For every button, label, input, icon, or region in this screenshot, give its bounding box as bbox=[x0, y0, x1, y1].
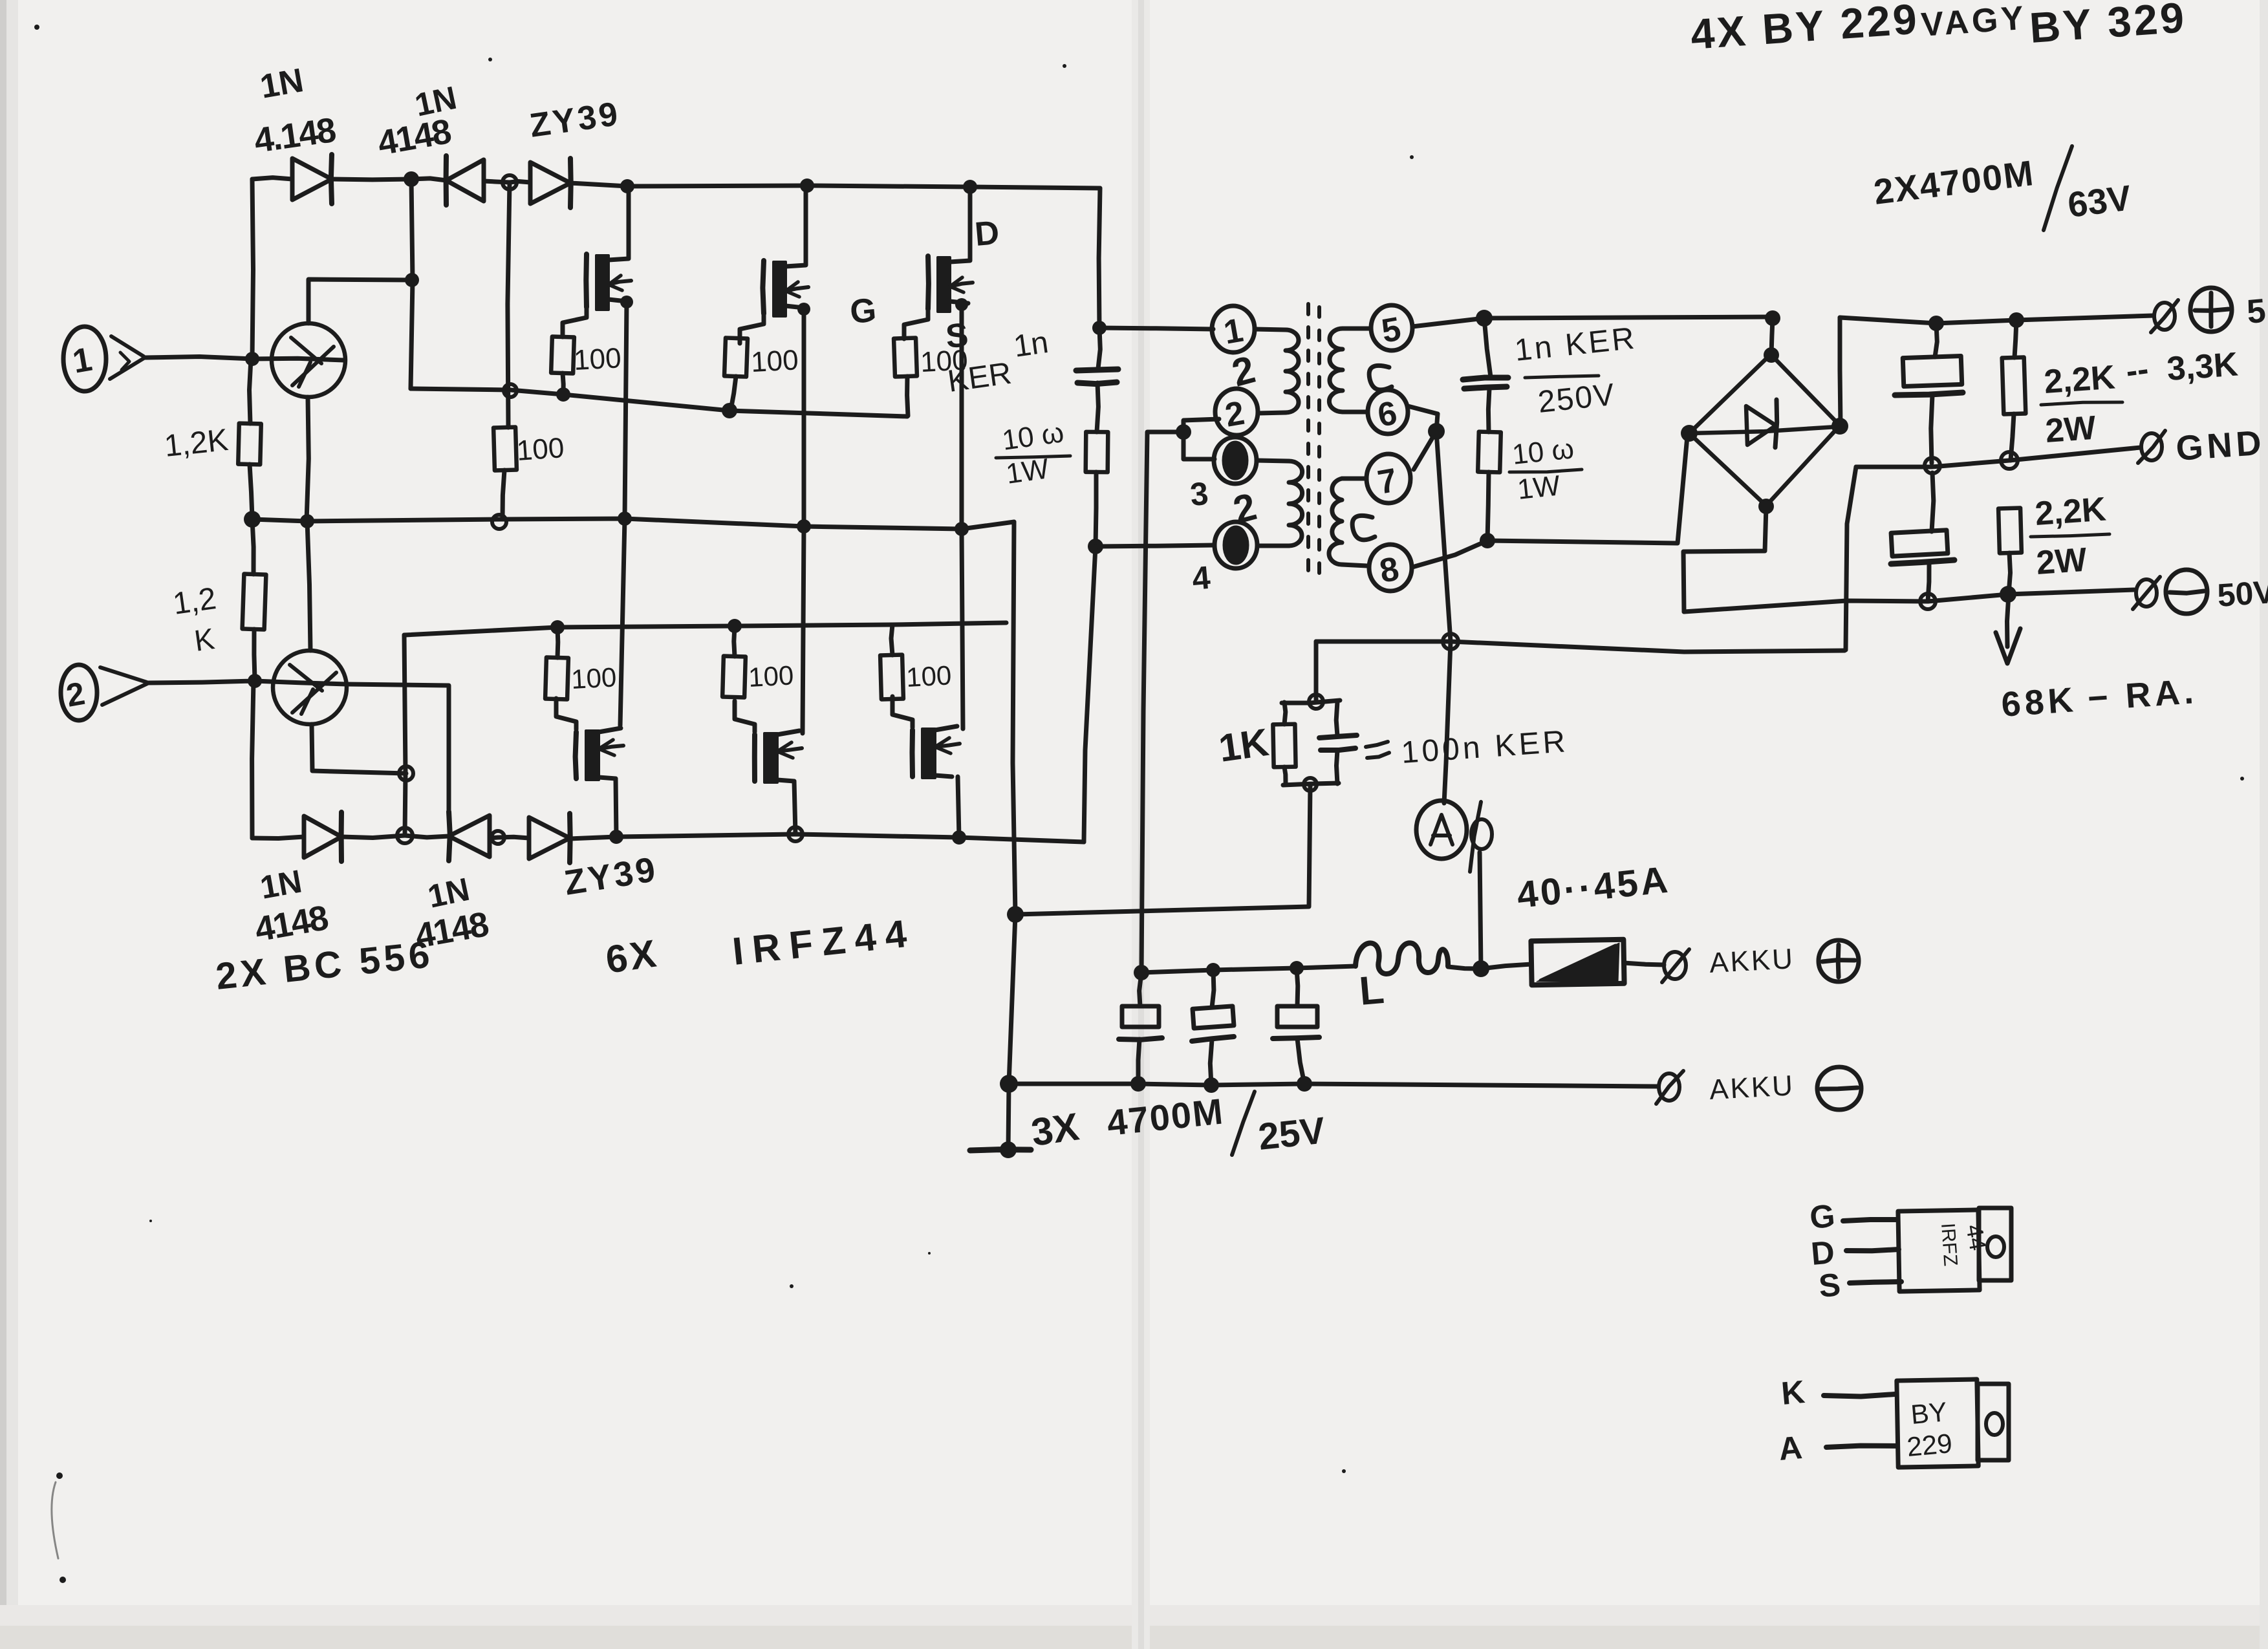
node - M2 vertical on bus B bbox=[797, 519, 811, 533]
wire - rail corner down to pin1 node bbox=[1099, 188, 1100, 328]
node - M2 drain on rail bbox=[800, 178, 814, 193]
wire - bridge bottom jog to -50V rail bbox=[1683, 506, 1766, 612]
input terminal 2 circle bbox=[61, 665, 97, 720]
node - L to fuse node bbox=[1473, 960, 1489, 977]
bridge diamond bbox=[1689, 354, 1840, 506]
primary winding 1-2 bbox=[1255, 329, 1299, 413]
wire - input 1 to node bbox=[145, 357, 252, 360]
symbol minus circle bbox=[1817, 1067, 1861, 1110]
MOSFET M4 IRFZ44 (lower left) bbox=[556, 698, 623, 780]
label ZY39 (top) bbox=[528, 95, 623, 145]
wire - L node to fuse bbox=[1481, 964, 1531, 969]
node - combo return junction bbox=[1007, 906, 1024, 923]
node - M1 drain on rail bbox=[620, 179, 634, 193]
svg-text:L: L bbox=[1357, 967, 1386, 1014]
resistor R4g 100 ohm bbox=[545, 627, 568, 699]
node - cap2 top bbox=[1206, 963, 1220, 977]
resistor R9 2.2K 2W bbox=[1998, 508, 2022, 594]
svg-text:IRFZ: IRFZ bbox=[1937, 1222, 1961, 1267]
wire - fuse to AKKU+ terminal bbox=[1624, 963, 1664, 965]
node - R7 bottom on pin8 wire bbox=[1480, 533, 1495, 548]
svg-text:A: A bbox=[1777, 1429, 1804, 1467]
node - rail/bridge stub bbox=[1765, 310, 1780, 326]
transistor Q2 BC556 circle bbox=[273, 651, 347, 724]
wire - vertical from D2 node down to R4 bbox=[508, 182, 510, 427]
label 1,2K (upper) bbox=[163, 423, 230, 464]
svg-text:10 ω: 10 ω bbox=[1511, 433, 1575, 471]
wire - bridge top stub to rail bbox=[1771, 318, 1773, 355]
secondary winding 7-8 bbox=[1329, 479, 1367, 566]
wire - tap to pin7 bbox=[1414, 431, 1436, 469]
node - Q2 path/vertical x626 junction bbox=[399, 766, 413, 781]
label 1N (D2) bbox=[375, 80, 460, 163]
resistor R5g 100 ohm bbox=[722, 626, 746, 697]
label ZY39 (bottom) bbox=[561, 850, 660, 903]
svg-text:100: 100 bbox=[750, 344, 799, 378]
node - GND crossing bbox=[1443, 634, 1458, 649]
wire - M1 source vertical to bus B and M4 drain bbox=[620, 296, 633, 726]
wire - M5 source to lower bus bbox=[794, 781, 795, 834]
svg-text:2,2K: 2,2K bbox=[2043, 358, 2117, 401]
node - cap3 top bbox=[1290, 961, 1304, 975]
node - M5 source on bus bbox=[788, 827, 803, 841]
symbol minus 50V bbox=[2166, 570, 2268, 614]
inductor L bbox=[1355, 943, 1448, 974]
node - snubber bottom / pin4 wire bbox=[1088, 539, 1103, 554]
resistor R2g 100 ohm bbox=[724, 338, 748, 410]
wire - AKKU+ rail bbox=[1141, 966, 1355, 973]
wire bbox=[484, 181, 510, 182]
node - input2/vertical junction bbox=[248, 674, 262, 688]
label 2,2K 2W (R9) bbox=[2031, 490, 2110, 582]
svg-text:100: 100 bbox=[905, 660, 952, 693]
diode D2 1N4148 reversed (top row) bbox=[446, 156, 484, 205]
node - M3 vertical on bus B bbox=[955, 522, 969, 536]
resistor R3g 100 ohm bbox=[894, 338, 917, 416]
wire - to transformer pin 4 bbox=[1096, 545, 1215, 546]
terminal AKKU- circle bbox=[1656, 1071, 1683, 1104]
svg-text:100: 100 bbox=[515, 432, 565, 467]
svg-text:GND: GND bbox=[2175, 423, 2267, 468]
label 40..45A bbox=[1515, 858, 1672, 916]
wire - pin6 to tap bbox=[1408, 406, 1438, 414]
wire - pin2 to center tap node bbox=[1183, 419, 1219, 432]
transformer pin 5 circle bbox=[1371, 305, 1412, 350]
node - D5/D6 junction bbox=[491, 831, 504, 844]
svg-text:S: S bbox=[944, 316, 970, 356]
wire - Q1 collector down bbox=[307, 397, 308, 521]
svg-text:VAGY: VAGY bbox=[1920, 0, 2028, 44]
MOSFET M2 IRFZ44 (upper middle) bbox=[740, 192, 808, 343]
diode D4 1N4148 (bottom row) bbox=[304, 812, 341, 861]
wire - vertical x636 (diode node down to bus A corner) bbox=[411, 179, 413, 389]
wire - combo bottom to ground vertical bbox=[1017, 785, 1310, 914]
BY229 package drawing bbox=[1777, 1374, 2009, 1467]
winding count 2 (lower primary) bbox=[1229, 484, 1261, 532]
svg-text:D: D bbox=[973, 214, 1000, 253]
wire - Q2 bottom path to lower vertical bbox=[312, 724, 406, 773]
label 1N (D5) bbox=[413, 871, 491, 956]
node - C6 bottom bbox=[1920, 594, 1936, 609]
wire - -50V rail bbox=[1684, 590, 2134, 612]
label 100 (R6g) bbox=[905, 660, 952, 693]
label 10e/1W (R7) bbox=[1509, 433, 1582, 506]
wire bbox=[490, 837, 498, 837]
capacitor CE3 4700u bbox=[1273, 968, 1319, 1084]
node - combo top bbox=[1309, 695, 1323, 709]
svg-text:1n: 1n bbox=[1011, 325, 1050, 364]
label 4 bbox=[1191, 559, 1212, 597]
svg-text:1,2K: 1,2K bbox=[163, 423, 230, 464]
wire - lower source bus bbox=[570, 834, 1084, 842]
wire - pin8 run bbox=[1412, 436, 1687, 567]
label GND bbox=[2175, 423, 2267, 468]
wire - top-left rail segment bbox=[252, 178, 292, 179]
label 4X BY229 VAGY BY329 bbox=[1689, 0, 2188, 58]
node - M1 vertical on bus B bbox=[618, 512, 632, 526]
node - CE3 bottom bbox=[1297, 1076, 1312, 1092]
svg-text:6X: 6X bbox=[603, 931, 661, 982]
wire - center tap to AKKU+ vertical bbox=[1141, 432, 1183, 973]
svg-text:1N: 1N bbox=[257, 863, 305, 906]
MOSFET M3 IRFZ44 (upper right) bbox=[904, 188, 973, 339]
combo top bar bbox=[1282, 700, 1340, 703]
terminal AKKU+ circle bbox=[1662, 949, 1689, 982]
svg-text:AKKU: AKKU bbox=[1709, 1070, 1795, 1106]
label S bbox=[944, 316, 970, 356]
node - 6/7 tap bbox=[1428, 423, 1445, 440]
svg-text:63V: 63V bbox=[2066, 177, 2133, 225]
wire - M2 source vertical bbox=[797, 303, 810, 733]
wire - left vertical bottom (input2 to lower diode row) bbox=[252, 681, 254, 838]
secondary sense curl (upper) bbox=[1369, 365, 1392, 390]
label 1K bbox=[1216, 720, 1271, 770]
resistor R5 10ohm 1W bbox=[1086, 432, 1108, 546]
Q1 internal strokes bbox=[291, 338, 334, 387]
svg-text:100: 100 bbox=[748, 660, 794, 693]
wire - Q1 emitter up bbox=[308, 279, 412, 323]
wire - M4 source to lower bus bbox=[616, 779, 616, 837]
svg-text:100: 100 bbox=[573, 342, 622, 376]
wire - pin3 to center tap node bbox=[1183, 432, 1215, 459]
transformer pin 2 circle bbox=[1215, 389, 1258, 435]
svg-text:1N: 1N bbox=[257, 61, 307, 106]
svg-text:4: 4 bbox=[1191, 559, 1212, 597]
label 3 bbox=[1189, 475, 1210, 513]
label 1n KER (C1) bbox=[945, 325, 1050, 399]
resistor R7 10ohm 1W bbox=[1478, 432, 1501, 541]
transformer pin 4 circle (filled) bbox=[1215, 522, 1257, 568]
svg-text:5: 5 bbox=[2245, 292, 2267, 331]
label 100 (R5g) bbox=[748, 660, 794, 693]
svg-text:2W: 2W bbox=[2044, 409, 2098, 450]
node - AKKU+ left node / cap1 top bbox=[1134, 965, 1149, 980]
diode D3 ZY39 zener (top row) bbox=[510, 158, 571, 208]
wire - bus B (source bus) bbox=[252, 519, 1014, 529]
winding count 2 (upper primary) bbox=[1227, 347, 1260, 394]
wire - Q2 top to bus B bbox=[307, 521, 310, 651]
secondary winding 5-6 bbox=[1329, 329, 1371, 412]
svg-text:3,3K: 3,3K bbox=[2166, 345, 2240, 388]
node - CE1 bottom bbox=[1130, 1076, 1146, 1092]
input terminal 1 circle bbox=[63, 327, 106, 391]
arrow to 68K bbox=[1996, 594, 2020, 663]
wire - GND run bbox=[1316, 641, 1844, 652]
ammeter circle A bbox=[1416, 801, 1467, 859]
label 100 (R3g) bbox=[920, 344, 969, 378]
wire - left vertical top (diode row to input1) bbox=[252, 179, 254, 359]
wire bbox=[332, 177, 411, 182]
wire - M3 source vertical bbox=[955, 298, 968, 729]
node - CE2 bottom bbox=[1204, 1077, 1219, 1093]
label 100 (R4) bbox=[515, 432, 565, 467]
wire - L to node bbox=[1448, 967, 1481, 969]
label AKKU (minus) bbox=[1709, 1070, 1795, 1106]
node - AKKU- rail left end bbox=[1000, 1075, 1018, 1093]
transistor Q1 BC556 circle bbox=[272, 323, 345, 397]
svg-text:229: 229 bbox=[1906, 1428, 1954, 1462]
node - R4 top on bus A bbox=[504, 384, 517, 397]
label 100 (R1g) bbox=[573, 342, 622, 376]
svg-text:3: 3 bbox=[1189, 475, 1210, 513]
label 1N (D1) bbox=[252, 61, 338, 160]
wire bbox=[252, 837, 304, 839]
wire - input 2 to node bbox=[147, 681, 255, 683]
node - combo bottom bbox=[1304, 778, 1317, 791]
node - bridge right corner bbox=[1831, 418, 1848, 435]
svg-text:1,2: 1,2 bbox=[171, 581, 218, 621]
node - D1/D2 junction bbox=[404, 171, 419, 187]
label L bbox=[1357, 967, 1386, 1014]
wire - node to transformer pin 1 bbox=[1099, 328, 1213, 329]
transformer core dashes bbox=[1308, 304, 1319, 582]
input 1 arrow bbox=[110, 336, 145, 379]
label 100 (R2g) bbox=[750, 344, 799, 378]
node - bridge bottom corner bbox=[1758, 499, 1774, 514]
capacitor CE1 4700u bbox=[1119, 973, 1162, 1084]
wire - combo top node to GND wire bbox=[1314, 641, 1319, 700]
label 2X BC 556 bbox=[214, 933, 436, 998]
node - C4 top bbox=[1476, 310, 1493, 327]
node - C5 bottom / C6 top bbox=[1925, 458, 1940, 473]
ground symbol bbox=[970, 1141, 1031, 1158]
capacitor C4 1n KER 250V bbox=[1463, 318, 1508, 432]
wire - top drain rail bbox=[570, 183, 1100, 188]
diode D6 ZY39 zener (bottom row) bbox=[498, 814, 570, 863]
svg-text:BY: BY bbox=[1910, 1396, 1949, 1430]
node - bridge left corner bbox=[1681, 425, 1698, 442]
MOSFET M5 IRFZ44 (lower middle) bbox=[735, 701, 802, 782]
label 100 (R4g) bbox=[570, 662, 617, 695]
diode D1 1N4148 (top row) bbox=[292, 155, 332, 204]
svg-text:G: G bbox=[1808, 1198, 1837, 1236]
resistor R1g 100 ohm bbox=[551, 336, 574, 394]
wire - GND left descender bbox=[1844, 467, 1856, 651]
node - cap C5 top bbox=[1928, 316, 1944, 331]
svg-text:S: S bbox=[1817, 1266, 1842, 1304]
node - emitter wire/vertical junction bbox=[405, 273, 419, 287]
bridge middle wire bbox=[1689, 427, 1837, 433]
wire - Q2 base extension down to D5 bbox=[347, 684, 449, 812]
node - input1/vertical junction bbox=[245, 352, 259, 366]
input 2 arrow bbox=[100, 667, 147, 705]
wire - vertical x626 (bus C to lower diode row) bbox=[404, 635, 405, 835]
svg-text:AKKU: AKKU bbox=[1709, 943, 1795, 979]
node - M3 drain on rail bbox=[963, 180, 977, 194]
label 2X4700M/63V bbox=[1872, 146, 2133, 230]
bridge internal diode bbox=[1746, 400, 1777, 447]
node - R5g on bus C bbox=[728, 619, 742, 633]
diode D5 1N4148 reversed (bottom row) bbox=[405, 812, 490, 861]
node - R2g bottom on bus A bbox=[722, 403, 737, 418]
capacitor C1 1n KER bbox=[1076, 328, 1118, 432]
svg-text:G: G bbox=[848, 292, 878, 331]
label AKKU (plus) bbox=[1709, 943, 1795, 979]
label 6X IRFZ44 bbox=[603, 911, 917, 982]
node - R1g bottom on bus A bbox=[556, 387, 570, 402]
node - R8 bottom R9 top bbox=[2001, 452, 2018, 469]
wire - bus B descender (ground vertical) bbox=[1008, 522, 1015, 1150]
node - Q2/Q1/busB junction bbox=[300, 514, 314, 528]
transformer pin 8 circle bbox=[1369, 544, 1412, 591]
capacitor C6 4700u/63V bbox=[1891, 473, 1954, 601]
Q2 internal strokes bbox=[290, 665, 336, 714]
resistor R6 1K bbox=[1273, 702, 1295, 784]
node - R9 bottom bbox=[2000, 586, 2016, 603]
ammeter terminal phi bbox=[1470, 802, 1492, 872]
svg-text:K: K bbox=[1780, 1374, 1806, 1412]
label G bbox=[848, 292, 878, 331]
capacitor C3 100n KER bbox=[1319, 702, 1357, 784]
label 1N (D4) bbox=[252, 863, 331, 949]
node - bridge top corner bbox=[1764, 347, 1779, 363]
wire - secondary tap to GND wire vertical bbox=[1436, 414, 1451, 641]
capacitor C5 4700u/63V bbox=[1895, 323, 1963, 463]
label 10e/1W (R5) bbox=[996, 416, 1070, 490]
label 68K - RA. bbox=[2000, 672, 2199, 724]
wire bbox=[341, 835, 405, 838]
resistor R4 100 ohm (gate bleed) bbox=[493, 427, 517, 519]
Q1 base line bbox=[252, 358, 344, 360]
terminal GND circle bbox=[2138, 431, 2165, 463]
node - pin1 branch node bbox=[1092, 321, 1107, 335]
node - M4 source on bus bbox=[609, 830, 623, 844]
node - R8 top bbox=[2009, 312, 2024, 328]
node - center tap node bbox=[1176, 424, 1191, 440]
label 2,2K--3,3K bbox=[2041, 345, 2240, 450]
capacitor CE2 4700u bbox=[1192, 970, 1234, 1085]
wire bbox=[411, 178, 446, 180]
label 1n KER 250V bbox=[1513, 321, 1639, 420]
terminal -50V circle bbox=[2133, 577, 2160, 609]
svg-text:3X: 3X bbox=[1028, 1105, 1081, 1154]
transformer pin 7 circle bbox=[1366, 454, 1410, 503]
wire - pin5 to +50V rail bbox=[1412, 317, 1772, 327]
node - D2/D3 junction bbox=[502, 175, 517, 189]
svg-text:50V: 50V bbox=[2216, 574, 2268, 614]
symbol plus 50V bbox=[2190, 288, 2267, 332]
transformer pin 6 circle bbox=[1368, 390, 1408, 435]
svg-text:1W: 1W bbox=[1516, 469, 1562, 506]
wire - snubber descender to lower bus bbox=[1084, 546, 1096, 842]
terminal +50V circle bbox=[2151, 300, 2178, 332]
wire - M6 source to lower bus bbox=[958, 777, 959, 837]
transformer pin 3 circle (filled) bbox=[1214, 437, 1257, 484]
node - R4g on bus C bbox=[550, 620, 565, 634]
combo bottom bar bbox=[1283, 783, 1339, 785]
resistor R8 2.2K 2W bbox=[2002, 320, 2026, 460]
MOSFET M6 IRFZ44 (lower right) bbox=[892, 696, 960, 778]
node - bus B left end bbox=[244, 511, 261, 528]
svg-text:1K: 1K bbox=[1216, 720, 1271, 770]
svg-text:1W: 1W bbox=[1004, 453, 1052, 490]
symbol plus circle bbox=[1819, 940, 1859, 982]
wire - AKKU- rail bbox=[1009, 1084, 1658, 1086]
secondary sense curl (lower) bbox=[1352, 515, 1375, 540]
svg-text:D: D bbox=[1809, 1234, 1836, 1272]
wire - ammeter vertical bbox=[1444, 641, 1481, 969]
svg-text:25V: 25V bbox=[1257, 1109, 1328, 1158]
MOSFET M1 IRFZ44 (upper left) bbox=[563, 186, 631, 337]
IRFZ44 package drawing bbox=[1808, 1198, 2011, 1304]
svg-text:100: 100 bbox=[570, 662, 617, 695]
transformer pin 1 circle bbox=[1212, 306, 1255, 352]
label 3X 4700M/25V bbox=[1028, 1090, 1327, 1158]
node - M6 source on bus bbox=[952, 830, 966, 845]
fuse 40-45A bbox=[1531, 940, 1624, 985]
resistor 1.2K lower bbox=[243, 519, 266, 680]
label D bbox=[973, 214, 1000, 253]
wire - GND line M bbox=[1856, 447, 2141, 467]
wire - +50V rail right bbox=[1840, 316, 2154, 323]
label 100n KER bbox=[1366, 724, 1570, 770]
label 1,2 K (lower) bbox=[171, 581, 218, 658]
wire - +50V rail corner to bridge right bbox=[1840, 318, 1841, 426]
wire - bus A (upper gate bus) bbox=[411, 389, 907, 416]
wire - bus C (lower gate bus) bbox=[404, 623, 1006, 635]
node - R4 bottom on bus B bbox=[492, 515, 506, 529]
svg-text:2W: 2W bbox=[2035, 541, 2089, 582]
resistor 1.2K upper bbox=[238, 359, 261, 518]
node - D4/D5 junction bbox=[397, 828, 413, 843]
svg-text:2,2K: 2,2K bbox=[2034, 490, 2108, 533]
primary winding 3-4 bbox=[1257, 460, 1302, 546]
Q2 base line bbox=[255, 681, 347, 684]
resistor R6g 100 ohm bbox=[880, 625, 903, 699]
